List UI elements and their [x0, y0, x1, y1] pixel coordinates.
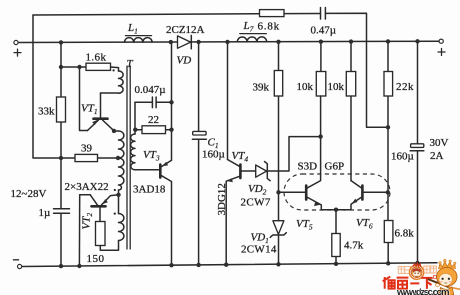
node rail2 10k2 top [349, 39, 353, 43]
node gnd VD1 [276, 262, 280, 266]
transformer winding W1 [119, 71, 124, 93]
node VT1 emitter tap [77, 65, 81, 69]
resistor 4.7k [332, 210, 364, 264]
transistor VT6 (NPN in module) [336, 181, 388, 231]
svg-text:150: 150 [87, 253, 105, 265]
capacitor 1µ [39, 207, 70, 219]
node rail2 VT4 collector [225, 40, 229, 44]
dashed module outline S3D G6P [284, 161, 390, 211]
resistor 6.8k right [384, 221, 414, 264]
wire top feedback rail [33, 13, 388, 127]
svg-text:1µ: 1µ [39, 207, 51, 219]
node VD2 10k1 VT5 collector [318, 134, 322, 138]
terminal input - [13, 260, 21, 269]
node gnd 33k col [59, 264, 63, 268]
svg-text:10k: 10k [297, 81, 314, 93]
svg-text:39k: 39k [253, 82, 270, 94]
svg-text:10k: 10k [328, 81, 345, 93]
node rail2 diode anode [169, 40, 173, 44]
wire VT1 emitter column [80, 67, 88, 131]
svg-text:2CW7: 2CW7 [241, 197, 271, 209]
node gnd output cap [415, 261, 419, 265]
resistor 10k second [328, 42, 356, 181]
svg-text:39: 39 [81, 143, 93, 155]
wire 1.6k row [61, 67, 119, 71]
svg-text:160µ: 160µ [391, 151, 414, 163]
node VT6 base divider [386, 190, 390, 194]
transistor VT5 (NPN in module) [279, 96, 337, 232]
svg-text:12~28V: 12~28V [11, 188, 47, 200]
node 1.6k left [59, 65, 63, 69]
wire W1 bottom to VT1 base [101, 92, 119, 94]
svg-text:G6P: G6P [325, 161, 345, 173]
phase dot W1 [112, 69, 114, 71]
node gnd VT3 collector [169, 263, 173, 267]
node rail2 22k top [386, 39, 390, 43]
svg-text:0.47µ: 0.47µ [311, 25, 337, 37]
svg-text:6.8k: 6.8k [395, 228, 415, 240]
watermark red brand glyphs 维库一下 [383, 277, 433, 289]
watermark pen stroke [429, 279, 450, 287]
svg-text:0.047µ: 0.047µ [135, 84, 166, 96]
resistor 22 [136, 114, 172, 134]
transformer winding W4 [118, 195, 120, 214]
svg-text:2×3AX22: 2×3AX22 [65, 181, 109, 193]
transistor VT4 (3DG12 NPN) [226, 42, 256, 265]
node rail2 39k top [276, 40, 280, 44]
node 0.047µ right [169, 100, 173, 104]
transformer winding W2 [114, 130, 119, 132]
capacitor C1 160µ polarized [192, 42, 224, 265]
transformer winding W3 [119, 158, 124, 190]
resistor 33k [38, 97, 66, 122]
zener diode VD1 2CW14 [241, 192, 286, 264]
wire 33k column [60, 42, 62, 266]
node VT5 base 39k [276, 190, 280, 194]
resistor 1.6k [86, 52, 111, 71]
svg-text:2CZ12A: 2CZ12A [166, 24, 205, 36]
node 33k bottom 39 [59, 156, 63, 160]
node rail2 x61 [59, 40, 63, 44]
svg-text:S3D: S3D [298, 161, 318, 173]
watermark faint slogan glyphs [398, 266, 436, 274]
resistor 39 [75, 143, 98, 162]
wire 150 bottom to winding W4 [100, 241, 118, 251]
svg-text:2A: 2A [430, 150, 444, 162]
svg-text:22: 22 [148, 114, 159, 126]
node VT2 emitter winding tap [116, 193, 120, 197]
node gnd VT4 emitter [224, 263, 228, 267]
wire left vertical from top rail to 39 resistor [33, 15, 75, 158]
node 39 W2 W3 [116, 156, 120, 160]
resistor 39k [253, 42, 283, 193]
resistor 10k first [297, 42, 326, 96]
node feedback 22k bottom [386, 125, 390, 129]
node rail2 output cap top [415, 39, 419, 43]
node gnd VT2 collector [77, 264, 81, 268]
svg-text:6.8k: 6.8k [258, 21, 280, 33]
resistor 150 [87, 222, 106, 266]
diode VD 2CZ12A [166, 24, 205, 67]
svg-text:VD: VD [177, 55, 192, 67]
node 22 right [169, 128, 173, 132]
capacitor 0.047µ [135, 84, 172, 108]
watermark TM mark [434, 276, 437, 279]
svg-text:160µ: 160µ [202, 149, 225, 161]
resistor 22k [384, 42, 414, 221]
phase dot W3 [114, 189, 116, 191]
capacitor 160µ output polarized [391, 41, 449, 263]
watermark monkey badge [410, 263, 424, 280]
zener diode VD2 2CW7 [241, 137, 321, 209]
node rail2 10k1 top [319, 39, 323, 43]
svg-text:22k: 22k [396, 81, 414, 93]
watermark dzsc.com [383, 259, 460, 295]
transistor VT3 (3AD18 PNP) [133, 149, 172, 265]
inductor L7 [237, 20, 266, 42]
wire rectified node column [171, 42, 173, 160]
wire 39 to winding [98, 157, 119, 159]
transistor VT2 (3AX22 PNP) [81, 195, 119, 230]
terminal input + [14, 40, 21, 56]
junction node dots [59, 39, 420, 268]
capacitor 0.47µ top [311, 8, 337, 37]
wire bottom ground rail [22, 263, 437, 267]
svg-text:www.dzsc.com: www.dzsc.com [396, 287, 450, 295]
transistor VT1 (3AX22 PNP) [81, 93, 114, 131]
transformer T core [127, 58, 134, 249]
svg-text:3AD18: 3AD18 [133, 184, 166, 196]
svg-text:4.7k: 4.7k [344, 240, 364, 252]
node gnd 4.7k [334, 262, 338, 266]
node 22 left secondary top [133, 128, 137, 132]
svg-text:30V: 30V [430, 137, 449, 149]
watermark mascot [435, 259, 457, 295]
node emitters 4.7k [334, 208, 338, 212]
wire VT2 collector column [79, 195, 90, 266]
svg-text:T: T [127, 58, 134, 70]
svg-text:2CW14: 2CW14 [241, 244, 277, 256]
inductor L1 [124, 22, 152, 42]
node rail2 diode cathode [196, 40, 200, 44]
svg-text:33k: 33k [38, 106, 55, 118]
wire input + rail [18, 41, 439, 42]
node gnd 6.8k [386, 261, 390, 265]
node gnd C1 [196, 263, 200, 267]
terminal output + [438, 39, 445, 55]
resistor 6.8k top [258, 10, 285, 33]
phase dot W4 [114, 212, 116, 214]
node VT1 collector W2 [112, 129, 116, 133]
transformer secondary winding [131, 102, 135, 170]
svg-text:1.6k: 1.6k [86, 52, 107, 64]
